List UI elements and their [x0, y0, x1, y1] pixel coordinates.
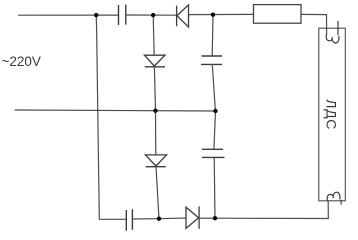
lamp top filament: [326, 34, 339, 43]
wire top rail left segment: [18, 14, 118, 16]
wire C3 to node D: [212, 64, 215, 111]
node A junction dot: [94, 13, 98, 17]
wire middle rail: [15, 110, 216, 111]
wire node E to D2: [159, 217, 186, 220]
node C junction dot: [153, 109, 157, 113]
wire bottom rail to C2: [99, 218, 126, 221]
wire column B upper: [153, 15, 154, 55]
lamp bottom filament: [327, 192, 340, 201]
wire column A vertical: [96, 15, 99, 219]
wire top rail C1 to D1: [126, 14, 177, 16]
capacitor C2: [126, 209, 132, 231]
node F junction dot: [213, 216, 217, 220]
wire resistor to lamp top: [301, 14, 327, 34]
diode D3: [144, 55, 165, 67]
svg-text:ЛДС: ЛДС: [324, 99, 340, 130]
wire D2 to node F: [199, 217, 215, 219]
wire node B to C3: [211, 15, 214, 56]
diode D4: [145, 155, 166, 167]
lamp tube ЛДС: [319, 28, 346, 201]
node B junction dot: [211, 13, 215, 17]
svg-text:~220V: ~220V: [2, 54, 41, 69]
node E junction dot: [157, 217, 161, 221]
node top-mid junction dot: [151, 13, 155, 17]
capacitor C4: [202, 149, 225, 157]
lamp bottom pin right stub: [340, 200, 342, 205]
diode D2: [186, 206, 199, 229]
wire bottom rail node F to lamp: [215, 201, 328, 219]
wire D4 to node E: [156, 167, 159, 219]
diode D1: [177, 5, 189, 27]
capacitor C3: [201, 56, 222, 64]
wire D3 to node C: [154, 67, 155, 111]
node D junction dot: [213, 109, 217, 113]
wire node C to D4: [155, 111, 157, 155]
capacitor C1: [119, 5, 126, 25]
wire C4 to node F: [213, 157, 216, 218]
resistor R1: [254, 5, 302, 24]
wire C2 to node E: [132, 218, 159, 220]
lamp top pin right stub: [337, 21, 339, 35]
wire top rail D1 to resistor: [189, 13, 254, 15]
wire node D to C4: [214, 111, 216, 149]
